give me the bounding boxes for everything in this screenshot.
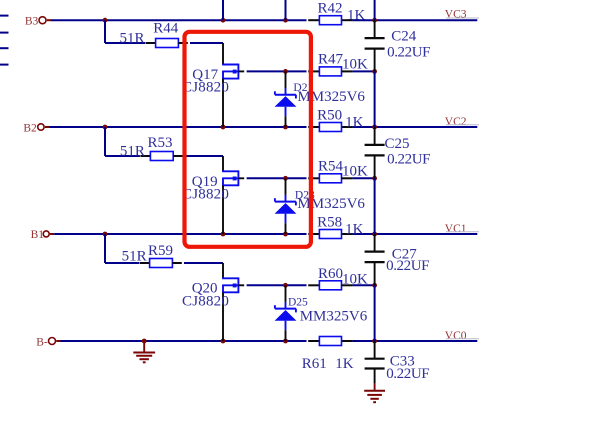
svg-text:R50: R50 (317, 107, 342, 123)
svg-text:0.22UF: 0.22UF (387, 152, 430, 168)
svg-text:C24: C24 (391, 29, 417, 45)
svg-text:1K: 1K (345, 114, 364, 130)
svg-text:10K: 10K (342, 57, 368, 73)
svg-text:VC3: VC3 (445, 9, 467, 21)
svg-text:R59: R59 (148, 243, 173, 259)
svg-text:1K: 1K (345, 221, 364, 237)
svg-text:51R: 51R (120, 30, 145, 46)
svg-text:CJ8820: CJ8820 (182, 293, 229, 309)
svg-text:B2: B2 (23, 122, 37, 134)
svg-text:MM325V6: MM325V6 (300, 309, 368, 325)
svg-text:1K: 1K (347, 7, 366, 23)
svg-text:C25: C25 (385, 136, 410, 152)
svg-text:B3: B3 (25, 15, 39, 27)
svg-text:10K: 10K (342, 271, 368, 287)
svg-text:R58: R58 (317, 214, 342, 230)
svg-text:0.22UF: 0.22UF (386, 366, 429, 382)
svg-text:VC2: VC2 (445, 116, 467, 128)
svg-text:R44: R44 (153, 21, 179, 37)
svg-text:R47: R47 (318, 51, 344, 67)
svg-text:R54: R54 (318, 159, 344, 175)
svg-text:VC0: VC0 (445, 330, 467, 342)
svg-text:VC1: VC1 (445, 223, 467, 235)
svg-text:R61: R61 (302, 356, 327, 372)
svg-text:R42: R42 (318, 1, 343, 17)
svg-text:R53: R53 (148, 135, 173, 151)
svg-text:0.22UF: 0.22UF (387, 44, 430, 60)
svg-text:51R: 51R (122, 249, 147, 265)
svg-text:D25: D25 (288, 297, 308, 309)
svg-text:R60: R60 (318, 266, 343, 282)
svg-text:B-: B- (36, 337, 48, 349)
svg-text:0.22UF: 0.22UF (386, 258, 429, 274)
svg-text:CJ8820: CJ8820 (182, 80, 229, 96)
svg-text:1K: 1K (335, 356, 354, 372)
svg-text:B1: B1 (31, 229, 45, 241)
svg-text:51R: 51R (120, 143, 145, 159)
svg-text:10K: 10K (342, 164, 368, 180)
svg-text:CJ8820: CJ8820 (182, 187, 229, 203)
